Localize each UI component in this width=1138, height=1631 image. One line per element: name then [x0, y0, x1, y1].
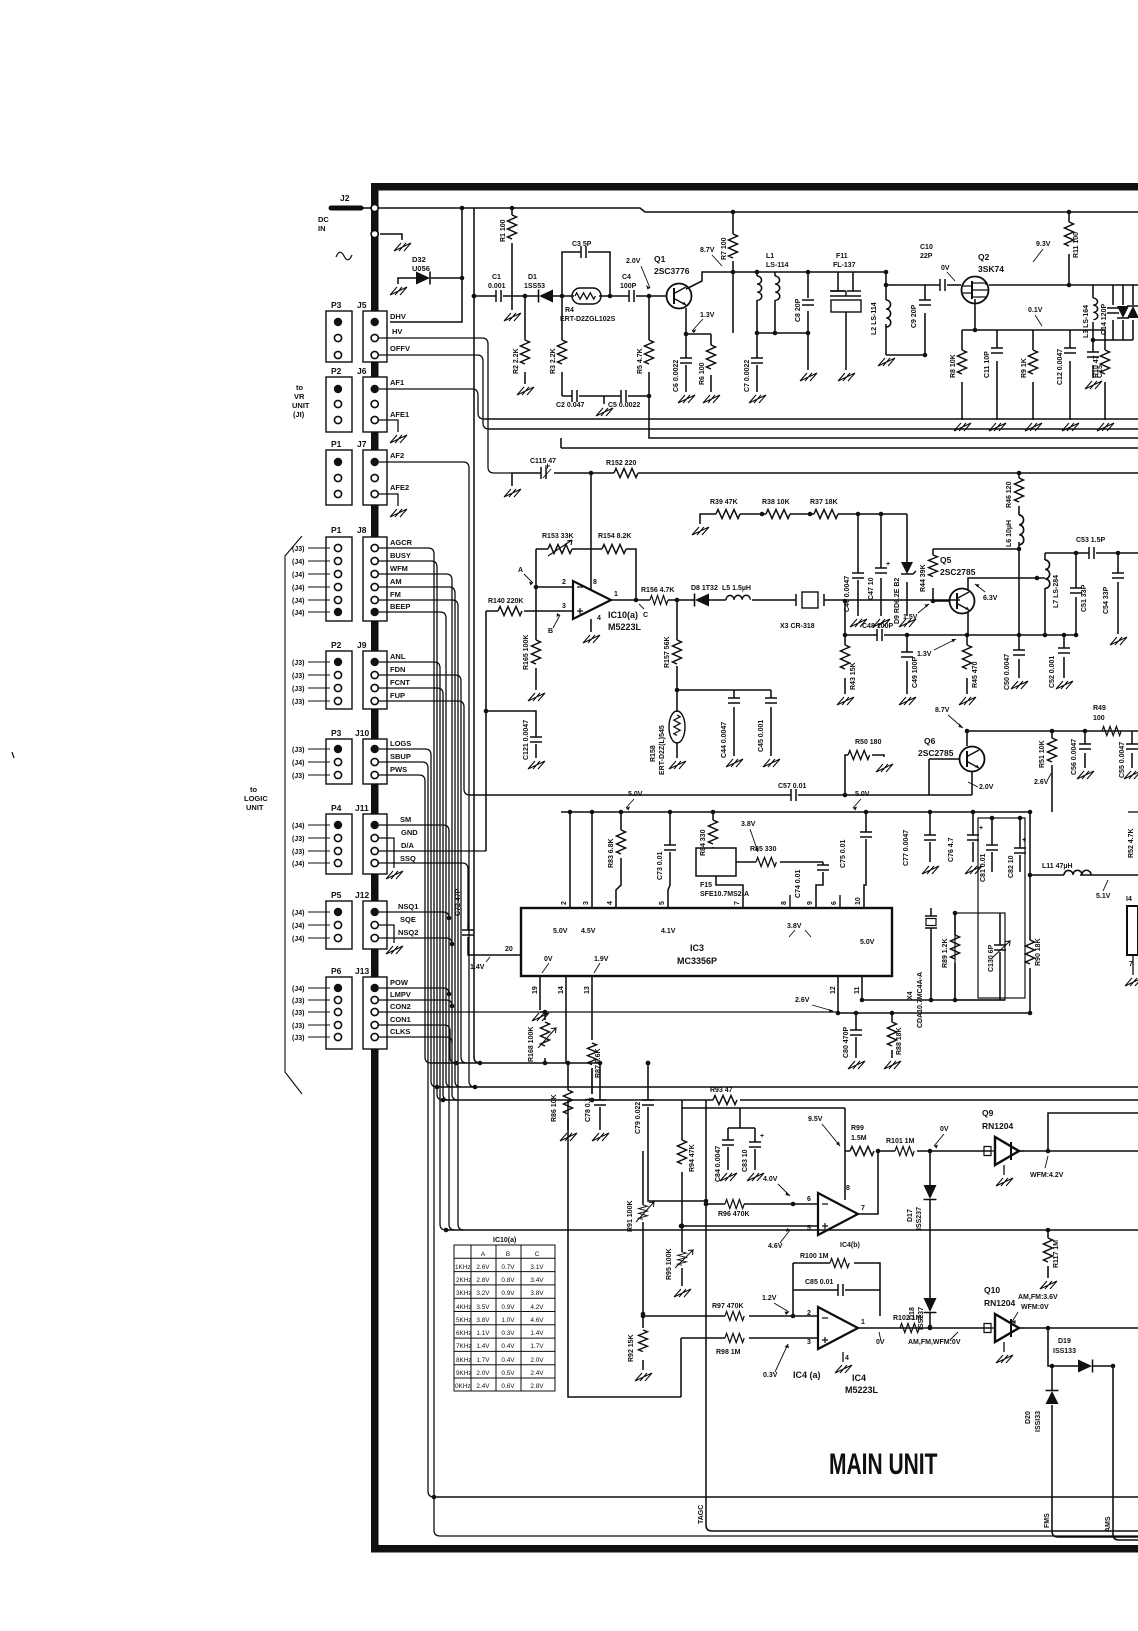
capacitor C11 10P — [991, 348, 1003, 353]
svg-text:SFE10.7MS2-A: SFE10.7MS2-A — [700, 891, 749, 898]
svg-text:R153 33K: R153 33K — [542, 533, 574, 540]
transistor Q2 3SK74 (FET) — [962, 277, 990, 304]
wire HV — [379, 338, 512, 473]
svg-text:C82 10: C82 10 — [1008, 855, 1015, 878]
resistor R100 1M — [830, 1259, 849, 1268]
bus dots — [568, 810, 573, 815]
svg-text:IN: IN — [318, 224, 326, 233]
svg-text:R89 1.2K: R89 1.2K — [942, 938, 949, 968]
svg-text:PWS: PWS — [390, 765, 407, 774]
svg-text:6: 6 — [807, 1196, 811, 1203]
wire NSQ1 — [379, 912, 449, 918]
resistor R93 47 — [713, 1096, 737, 1105]
wire IC4b out riser — [858, 1151, 878, 1214]
svg-text:1.3V: 1.3V — [700, 312, 715, 319]
connector P1 (top) — [326, 450, 352, 505]
svg-text:P1: P1 — [331, 525, 342, 535]
wire J2 to node — [361, 207, 371, 209]
gnds under C77 C76 — [922, 866, 939, 874]
svg-text:(J3): (J3) — [292, 747, 304, 754]
wire R50 — [845, 755, 884, 795]
svg-text:LOGIC: LOGIC — [244, 794, 268, 803]
svg-text:C55 0.0047: C55 0.0047 — [1119, 742, 1126, 778]
capacitor C15 0.0047 — [1087, 352, 1099, 357]
svg-text:FL-137: FL-137 — [833, 262, 856, 269]
wire ANL — [379, 662, 446, 1230]
svg-text:C80 470P: C80 470P — [843, 1027, 850, 1058]
capacitor C10 22P — [940, 279, 945, 291]
svg-text:13: 13 — [584, 986, 591, 994]
resistor R84 330 — [709, 820, 718, 844]
svg-text:DHV: DHV — [390, 312, 406, 321]
svg-text:R45 470: R45 470 — [972, 661, 979, 688]
opamp IC4(b) — [818, 1193, 858, 1235]
capacitor C50 0.0047 — [1013, 650, 1025, 655]
node A — [534, 585, 539, 590]
connector J9 — [363, 651, 387, 709]
svg-text:C12 0.0047: C12 0.0047 — [1057, 349, 1064, 385]
capacitor C3 5P — [581, 246, 586, 258]
svg-text:1.2V: 1.2V — [762, 1295, 777, 1302]
resistor R2 2.2K — [521, 340, 530, 364]
capacitor C74 0.01 — [817, 865, 829, 870]
svg-text:AGCR: AGCR — [390, 538, 413, 547]
svg-text:R2 2.2K: R2 2.2K — [513, 348, 520, 374]
wire LOGS — [379, 749, 437, 1087]
resistor R153 33K (pot) — [548, 545, 572, 554]
svg-text:(J4): (J4) — [292, 598, 304, 605]
connector J2 lug — [331, 206, 361, 211]
capacitor C115 47 — [541, 467, 546, 479]
wire C3 bypass loop — [562, 252, 610, 296]
wire top supply rail — [379, 208, 1138, 212]
wire SQE to ground — [379, 925, 394, 943]
svg-text:R94 47K: R94 47K — [689, 1144, 696, 1172]
svg-text:F15: F15 — [700, 882, 712, 889]
svg-text:C46 0.0047: C46 0.0047 — [844, 576, 851, 612]
wire long row y1087 — [437, 1086, 1138, 1088]
svg-text:ERT-D2ZGL102S: ERT-D2ZGL102S — [560, 316, 616, 323]
wire R39 row y514 — [700, 514, 907, 524]
node J2 pin2 — [371, 230, 378, 237]
wire NSQ2 — [379, 938, 452, 944]
svg-text:C2 0.047: C2 0.047 — [556, 402, 585, 409]
svg-text:1.4V: 1.4V — [470, 964, 485, 971]
svg-text:R92 15K: R92 15K — [628, 1334, 635, 1362]
svg-text:20: 20 — [505, 946, 513, 953]
transistor Q1 2SC3776 — [667, 284, 692, 309]
svg-text:D32: D32 — [412, 255, 426, 264]
wire supply row y1108 — [682, 1100, 845, 1108]
ground for D32 — [390, 287, 407, 295]
resistor R102 1M — [900, 1324, 919, 1333]
svg-text:ERT-D2Z(L)545: ERT-D2Z(L)545 — [659, 725, 666, 775]
capacitor C52 0.001 — [1058, 648, 1070, 653]
wire bias row y396 — [562, 395, 648, 397]
svg-text:X4: X4 — [907, 991, 914, 1000]
svg-text:2.0V: 2.0V — [979, 784, 994, 791]
wire Q9 out up branch — [1048, 1113, 1138, 1151]
wire IC3 pin stubs top extra — [790, 895, 840, 908]
svg-text:3.1V: 3.1V — [530, 1264, 544, 1271]
svg-text:L5 1.5µH: L5 1.5µH — [722, 585, 751, 592]
resistor R98 1M — [725, 1334, 744, 1343]
resistor R157 56K — [673, 640, 682, 664]
wire C44 C45 legs — [734, 690, 771, 756]
svg-text:R157 56K: R157 56K — [664, 636, 671, 668]
svg-text:+: + — [760, 1133, 764, 1140]
svg-text:4KHz: 4KHz — [456, 1304, 472, 1311]
wire riser x462 from top rail to DHV — [390, 208, 462, 322]
resistor R11 100 — [1065, 222, 1074, 246]
resistor R43 15K — [841, 645, 850, 669]
svg-text:C121 0.0047: C121 0.0047 — [523, 720, 530, 760]
connector P1 (J8 mate) — [326, 537, 352, 621]
svg-text:MAIN UNIT: MAIN UNIT — [829, 1449, 938, 1481]
svg-text:22P: 22P — [920, 253, 933, 260]
wire F11 ground stem — [845, 312, 847, 370]
svg-text:(J3): (J3) — [292, 998, 304, 1005]
svg-text:1.5M: 1.5M — [851, 1135, 867, 1142]
box around R89/C130 — [955, 913, 1005, 1000]
node C4 tap — [647, 394, 652, 399]
node C — [634, 598, 639, 603]
svg-text:IC4 (a): IC4 (a) — [793, 1370, 821, 1380]
svg-text:C7 0.0022: C7 0.0022 — [744, 360, 751, 392]
wire C77/X4 column — [929, 812, 931, 862]
wire opamp gnd stem — [590, 619, 592, 632]
wire WFM — [379, 574, 458, 1100]
svg-text:(J3): (J3) — [292, 836, 304, 843]
svg-text:(J4): (J4) — [292, 572, 304, 579]
svg-text:R156 4.7K: R156 4.7K — [641, 587, 674, 594]
svg-text:(J3): (J3) — [292, 849, 304, 856]
svg-text:0.6V: 0.6V — [501, 1383, 515, 1390]
capacitor C8 20P — [802, 300, 814, 305]
wire R84 leg — [712, 812, 714, 848]
wire L3 column bottom — [1093, 320, 1133, 378]
svg-text:(J3): (J3) — [292, 1035, 304, 1042]
capacitor C78 0.1 — [594, 1100, 606, 1105]
svg-text:C72 47P: C72 47P — [455, 888, 462, 916]
svg-text:8.7V: 8.7V — [700, 247, 715, 254]
wire input row y296 — [474, 295, 666, 297]
svg-text:5.0V: 5.0V — [628, 791, 643, 798]
svg-text:IC10(a): IC10(a) — [493, 1237, 516, 1244]
wire pin8 riser x845 — [844, 1108, 846, 1200]
svg-text:4: 4 — [845, 1355, 849, 1362]
svg-text:SBUP: SBUP — [390, 752, 411, 761]
svg-text:1: 1 — [861, 1319, 865, 1326]
svg-text:4: 4 — [607, 901, 614, 905]
stray mark — [12, 752, 14, 758]
zener D9 RD6.2E B2 — [901, 562, 913, 574]
wire SM — [379, 825, 455, 1230]
svg-text:Q9: Q9 — [982, 1108, 994, 1118]
svg-text:J8: J8 — [357, 525, 367, 535]
wire R88 leg — [891, 1013, 893, 1058]
svg-text:LOGS: LOGS — [390, 739, 411, 748]
connector J13 — [363, 977, 387, 1049]
svg-text:(J4): (J4) — [292, 559, 304, 566]
svg-text:2.8V: 2.8V — [530, 1383, 544, 1390]
connector J5 — [363, 311, 387, 362]
wire C10 series into Q2 — [947, 284, 961, 286]
svg-text:R154 8.2K: R154 8.2K — [598, 533, 631, 540]
connector J6 — [363, 377, 387, 432]
svg-text:ISS133: ISS133 — [1053, 1348, 1076, 1355]
resistor R154 8.2K — [602, 545, 626, 554]
svg-text:11: 11 — [854, 986, 861, 994]
svg-text:P4: P4 — [331, 803, 342, 813]
wire C73 leg — [668, 812, 670, 908]
svg-text:(J3): (J3) — [292, 673, 304, 680]
svg-text:C4: C4 — [622, 274, 631, 281]
svg-text:9: 9 — [807, 901, 814, 905]
ground below J2 return — [394, 243, 411, 251]
svg-text:2KHz: 2KHz — [456, 1277, 472, 1284]
wire right exit rows — [484, 419, 1138, 429]
svg-text:J2: J2 — [340, 193, 350, 203]
wire R86 leg — [567, 1063, 569, 1130]
svg-text:Q6: Q6 — [924, 736, 936, 746]
wire emitter bias row — [686, 334, 711, 392]
svg-text:0.001: 0.001 — [488, 283, 506, 290]
svg-text:R99: R99 — [851, 1125, 864, 1132]
wire pin2 riser — [569, 812, 571, 908]
wire C121 row — [486, 711, 536, 758]
svg-text:UNIT: UNIT — [292, 401, 310, 410]
resistor R86 10K — [564, 1090, 573, 1114]
svg-text:C73 0.01: C73 0.01 — [657, 851, 664, 880]
wire R43 column — [844, 601, 846, 694]
svg-text:R117 1M: R117 1M — [1053, 1240, 1060, 1268]
wire D32 anode lead — [398, 278, 416, 284]
IC3 MC3356P box — [521, 908, 892, 976]
transistor Q6 2SC2785 — [960, 747, 985, 772]
wire FDN — [379, 675, 467, 1063]
wire R1 ground leg — [511, 208, 513, 310]
capacitor C73 0.01 — [664, 845, 676, 850]
svg-text:0.4V: 0.4V — [501, 1343, 515, 1350]
voltage table IC10(a) — [454, 1245, 555, 1391]
wire FMS column — [1052, 1366, 1138, 1537]
wire AGCR — [379, 548, 1138, 1536]
svg-text:12: 12 — [830, 986, 837, 994]
svg-text:0.4V: 0.4V — [501, 1357, 515, 1364]
svg-text:+: + — [979, 825, 983, 832]
svg-text:9KHz: 9KHz — [456, 1370, 472, 1377]
wire C78 leg — [599, 1063, 601, 1130]
resistor R50 180 — [848, 751, 870, 760]
svg-text:FM: FM — [390, 590, 401, 599]
connector P4 — [326, 814, 352, 874]
svg-text:TAGC: TAGC — [698, 1505, 705, 1524]
svg-text:CLKS: CLKS — [390, 1027, 410, 1036]
svg-text:1: 1 — [614, 591, 618, 598]
svg-text:J7: J7 — [357, 439, 367, 449]
svg-text:(J3): (J3) — [292, 1023, 304, 1030]
resistor R117 1M — [1044, 1238, 1053, 1262]
wire long vertical x474 — [474, 208, 480, 1063]
wire F11 stems — [838, 272, 853, 291]
svg-text:(J4): (J4) — [292, 936, 304, 943]
svg-text:NSQ1: NSQ1 — [398, 902, 418, 911]
svg-text:14: 14 — [558, 986, 565, 994]
junction dots on trunk merges — [447, 916, 452, 921]
svg-text:C130 6P: C130 6P — [988, 944, 995, 972]
svg-text:C6 0.0022: C6 0.0022 — [673, 360, 680, 392]
svg-text:(J3): (J3) — [292, 773, 304, 780]
wire TAGC column — [706, 1100, 1138, 1531]
svg-text:C: C — [643, 612, 648, 619]
wire AMS column — [1113, 1366, 1138, 1540]
svg-text:NSQ2: NSQ2 — [398, 928, 418, 937]
svg-text:3: 3 — [807, 1339, 811, 1346]
svg-text:1.7V: 1.7V — [530, 1343, 544, 1350]
svg-text:C: C — [535, 1251, 540, 1258]
wire B y1013 — [838, 1012, 1030, 1014]
wire L2/C9 bottom bus — [886, 354, 925, 356]
svg-text:10: 10 — [855, 897, 862, 905]
wire IC3 pin stubs bottom — [540, 976, 862, 1063]
wire R140 row y611 — [486, 611, 573, 851]
voltages around IC3 — [544, 923, 875, 963]
diode D37 1SS53 — [1127, 306, 1138, 318]
thermistor R4 ERT-D2ZGL102S — [572, 288, 601, 304]
ground bias row — [596, 408, 613, 416]
svg-text:MC3356P: MC3356P — [677, 956, 717, 966]
resistor R9 1K — [1029, 350, 1038, 374]
diode D32 U056 — [416, 272, 430, 285]
svg-text:R11 100: R11 100 — [1073, 232, 1080, 258]
resistor R165 100K — [532, 640, 541, 664]
svg-text:OFFV: OFFV — [390, 344, 410, 353]
wire Q2 source/bias row — [962, 299, 1105, 420]
resistor R156 4.7K — [650, 596, 668, 605]
resistor R90 18K — [1026, 940, 1035, 964]
svg-text:R49: R49 — [1093, 705, 1106, 712]
svg-text:B: B — [506, 1251, 510, 1258]
svg-text:5.0V: 5.0V — [553, 928, 568, 935]
svg-text:C74 0.01: C74 0.01 — [795, 869, 802, 898]
ground J11 GND — [386, 871, 403, 879]
filter F15 SFE10.7MS2-A — [696, 848, 736, 876]
svg-text:U056: U056 — [412, 264, 430, 273]
svg-text:R101 1M: R101 1M — [886, 1138, 915, 1145]
svg-text:AMS: AMS — [1105, 1516, 1112, 1532]
wire long row y1100 — [443, 1099, 1138, 1101]
resistor R89 1.2K — [951, 935, 960, 959]
svg-text:Q5: Q5 — [940, 555, 952, 565]
svg-text:WFM: WFM — [390, 564, 408, 573]
svg-text:R9 1K: R9 1K — [1021, 358, 1028, 378]
svg-text:8: 8 — [781, 901, 788, 905]
svg-text:D9 RD6.2E B2: D9 RD6.2E B2 — [894, 578, 901, 624]
svg-text:BUSY: BUSY — [390, 551, 411, 560]
svg-text:AFE2: AFE2 — [390, 483, 409, 492]
svg-text:C51 33P: C51 33P — [1081, 584, 1088, 612]
svg-text:1.9V: 1.9V — [594, 956, 609, 963]
svg-text:6KHz: 6KHz — [456, 1330, 472, 1337]
svg-text:L1: L1 — [766, 253, 774, 260]
transistor Q9 RN1204 — [984, 1137, 1024, 1165]
svg-text:R96 470K: R96 470K — [718, 1211, 750, 1218]
resistor R83 6.8K — [617, 830, 626, 854]
svg-text:FCNT: FCNT — [390, 678, 410, 687]
wire FCNT — [379, 688, 449, 1100]
svg-text:A: A — [518, 567, 523, 574]
diode D17 ISS237 — [924, 1185, 937, 1199]
svg-text:C44 0.0047: C44 0.0047 — [721, 722, 728, 758]
svg-text:AM,FM,WFM:0V: AM,FM,WFM:0V — [908, 1339, 961, 1346]
svg-text:2.0V: 2.0V — [626, 258, 641, 265]
resistor R3 2.2K — [558, 340, 567, 364]
wire Q5 base — [933, 600, 949, 602]
svg-text:0.3V: 0.3V — [501, 1330, 515, 1337]
svg-text:R1 100: R1 100 — [500, 219, 507, 242]
svg-text:to: to — [250, 785, 257, 794]
resistor R96 470K — [725, 1200, 744, 1209]
resistor R5 4.7K — [645, 340, 654, 364]
svg-text:1.3V: 1.3V — [917, 651, 932, 658]
svg-text:3.8V: 3.8V — [530, 1290, 544, 1297]
svg-text:to: to — [296, 383, 303, 392]
trimmer C130 6P — [994, 945, 1006, 950]
svg-text:IC3: IC3 — [690, 943, 704, 953]
wire R44 column — [932, 549, 934, 601]
svg-text:7: 7 — [734, 901, 741, 905]
svg-text:D19: D19 — [1058, 1338, 1071, 1345]
svg-text:P2: P2 — [331, 366, 342, 376]
wire R97 row y1316 — [643, 1315, 818, 1317]
resistor R51 10K — [1048, 738, 1057, 762]
resistor R6 100 — [707, 345, 716, 369]
svg-text:2.0V: 2.0V — [530, 1357, 544, 1364]
wire C81 leg — [991, 818, 993, 872]
svg-text:C50 0.0047: C50 0.0047 — [1004, 654, 1011, 690]
svg-text:R38 10K: R38 10K — [762, 499, 790, 506]
svg-text:4.0V: 4.0V — [763, 1176, 778, 1183]
svg-text:R91 100K: R91 100K — [627, 1200, 634, 1232]
resistor R7 100 — [729, 234, 738, 258]
capacitor C5 0.0022 — [621, 390, 626, 402]
svg-text:J12: J12 — [355, 890, 369, 900]
node C3 right — [608, 294, 613, 299]
svg-text:(JI): (JI) — [293, 410, 305, 419]
svg-text:J13: J13 — [355, 966, 369, 976]
resistor R99 1.5M — [850, 1147, 874, 1156]
small IC box right edge — [1127, 906, 1138, 955]
wire node A column — [536, 549, 573, 611]
svg-text:2: 2 — [561, 901, 568, 905]
inductor L11 47uH — [1064, 870, 1091, 875]
svg-text:1SS53: 1SS53 — [524, 283, 545, 290]
svg-text:ISS237: ISS237 — [916, 1207, 923, 1230]
svg-text:AFE1: AFE1 — [390, 410, 409, 419]
wire bottom link y333 — [757, 332, 808, 334]
svg-text:(J4): (J4) — [292, 923, 304, 930]
svg-text:5.0V: 5.0V — [860, 939, 875, 946]
svg-text:A: A — [481, 1251, 486, 1258]
wire pin8 riser x591 — [590, 473, 592, 590]
wire CLKS — [379, 1037, 452, 1043]
svg-text:(J4): (J4) — [292, 610, 304, 617]
inductor L7 LS-284 — [1045, 560, 1050, 588]
svg-text:R50 180: R50 180 — [855, 739, 882, 746]
svg-text:(J4): (J4) — [292, 760, 304, 767]
svg-text:R102 1M: R102 1M — [893, 1315, 922, 1322]
